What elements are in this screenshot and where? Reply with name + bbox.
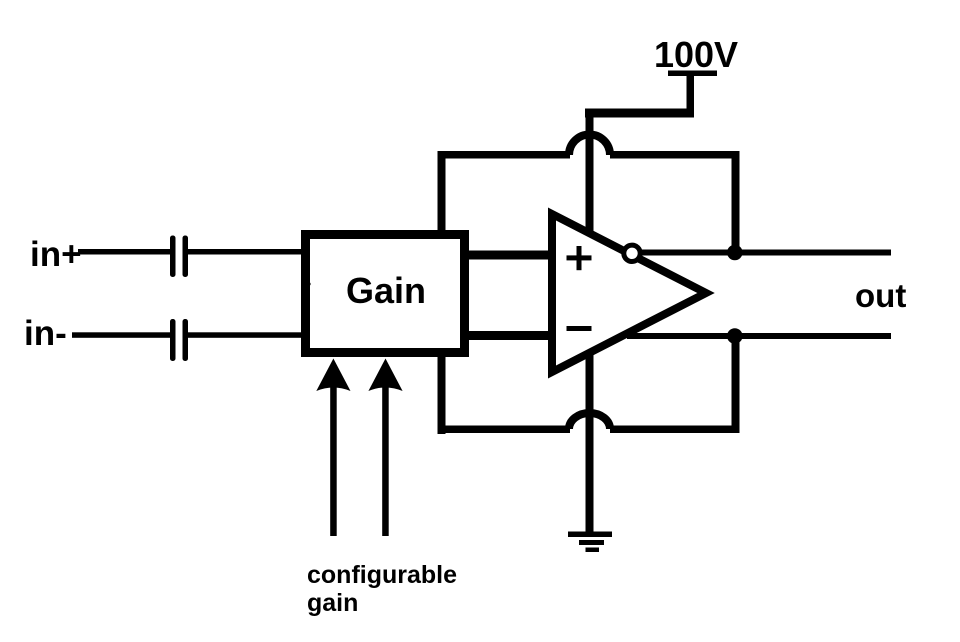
wire gain block to op-amp + input [466, 251, 553, 260]
wire supply jog horizontal [585, 109, 694, 118]
svg-text:Gain: Gain [346, 270, 426, 311]
arrow 2 head [368, 359, 402, 392]
wire op-amp out- [627, 333, 891, 339]
ground [568, 532, 612, 553]
gain block U1 [306, 235, 465, 353]
wire C1 to gain block [188, 249, 302, 255]
svg-text:in-: in- [24, 314, 67, 353]
svg-text:gain: gain [307, 589, 358, 617]
capacitor C2 [170, 319, 188, 361]
svg-text:in+: in+ [30, 235, 82, 274]
svg-text:100V: 100V [654, 34, 738, 75]
wire op-amp bottom to ground [586, 350, 594, 533]
op-amp - input marking [567, 326, 592, 331]
arrow 2 shaft (configurable gain control) [382, 385, 389, 536]
svg-text:out: out [855, 277, 906, 314]
inversion bubble on op-amp output [624, 245, 640, 261]
wire top feedback loop left vertical [438, 151, 446, 234]
wire top feedback loop right vertical [732, 151, 740, 252]
wire in+ to C1 [78, 249, 171, 255]
wire 100V bar down [687, 73, 695, 116]
wire bottom feedback loop right vertical [732, 338, 740, 433]
capacitor C1 [170, 236, 188, 278]
wire C2 to gain block [188, 332, 302, 338]
op-amp U2 [552, 214, 706, 372]
arrow 1 head [316, 359, 350, 392]
op-amp + input marking [567, 246, 592, 270]
svg-text:configurable: configurable [307, 561, 457, 589]
wire in- to C2 [72, 332, 171, 338]
junction node out+ [727, 245, 743, 261]
wire bottom feedback loop horizontal right segment [610, 426, 739, 434]
wire hop over supply (top) [569, 135, 610, 156]
wire gain block to op-amp - input [466, 331, 553, 340]
power rail bar 100V [668, 71, 717, 77]
wire top feedback loop horizontal left segment [438, 151, 571, 159]
wire supply vertical to op-amp top [586, 109, 594, 233]
wire bottom feedback loop left vertical [438, 353, 446, 434]
wire op-amp out+ [640, 250, 891, 256]
wire top feedback loop horizontal right segment [610, 151, 739, 159]
wire bottom feedback loop horizontal left segment [438, 426, 571, 434]
configurable gain label [307, 561, 457, 617]
wire hop over supply (bottom) [569, 413, 610, 429]
arrow 1 shaft (configurable gain control) [330, 385, 337, 536]
stray dot artifact inside gain block [307, 282, 310, 285]
junction node out- [727, 328, 743, 344]
